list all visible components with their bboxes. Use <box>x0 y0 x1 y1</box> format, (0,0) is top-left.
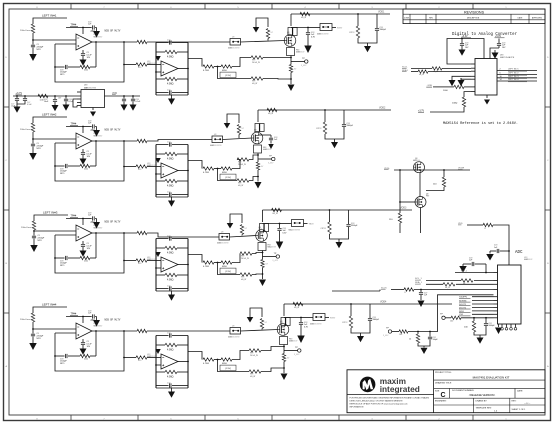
border zone tick bottom 6 <box>405 415 407 421</box>
capacitor C40 DAC decoupling <box>461 39 463 44</box>
border row tick right 3 <box>545 312 551 314</box>
svg-text:##: ## <box>261 166 264 168</box>
svg-text:20 kΩ_W: 20 kΩ_W <box>238 164 246 166</box>
supply arrow U2B <box>155 158 161 163</box>
wire DAC pin to ground B <box>461 78 471 79</box>
resistor R213 to ground <box>257 159 259 162</box>
capacitor C41 DAC ref <box>497 43 501 45</box>
svg-text:TP: TP <box>269 156 272 158</box>
resistor R18 upper output <box>251 56 263 59</box>
test point TP42 <box>283 347 285 351</box>
svg-text:20 kΩ_W: 20 kΩ_W <box>241 258 249 260</box>
border zone tick bottom 5 <box>338 415 340 421</box>
svg-text:1.00: 1.00 <box>84 359 89 361</box>
wire network to upper output <box>232 58 251 67</box>
svg-text:14: 14 <box>500 79 502 81</box>
svg-text:TP: TP <box>274 253 277 255</box>
svg-text:VDD: VDD <box>112 92 117 95</box>
ADC U7 box <box>498 265 522 324</box>
capacitor C25 second stage top <box>156 144 169 146</box>
junction loop at output line <box>123 41 125 43</box>
capacitor C34 feedback <box>68 257 80 259</box>
ground below jumper JU1 <box>253 27 260 33</box>
resistor R32 feedback <box>90 257 96 259</box>
wire DAC bottom-left pin to resistor R43 <box>464 92 471 97</box>
wire upper second-stage output to FET source node channel 1 <box>263 57 291 59</box>
data bus wire D1 to ADC <box>472 300 494 302</box>
resistor R112 on rail <box>300 12 310 15</box>
wire feedback vertical from output <box>95 141 97 166</box>
wire R23 to U2B inverting input <box>147 166 161 168</box>
wire input label to series resistor R11 <box>33 18 67 24</box>
svg-text:MAX####: MAX#### <box>94 134 104 137</box>
svg-text:##: ## <box>294 69 297 71</box>
svg-text:REPRODUCE OF ANY PORTION OF ww: REPRODUCE OF ANY PORTION OF www.maximint… <box>350 403 408 406</box>
junction rail at R114 <box>357 13 359 15</box>
capacitor C16 second stage bottom <box>156 92 169 94</box>
wire R11 to op-amp U1A non-inv input <box>33 33 76 40</box>
second stage left rail channel 3 <box>155 239 157 292</box>
ground at output node channel 1 <box>290 79 292 84</box>
svg-text:10: 10 <box>500 76 502 78</box>
junction second stage feed <box>123 260 125 262</box>
ground R56 C53 <box>479 335 481 338</box>
svg-text:##: ## <box>266 264 269 266</box>
resistor R24 second stage <box>156 153 165 155</box>
wire to second stage input resistor <box>124 166 136 168</box>
op-amp U4A first stage <box>76 323 92 339</box>
title block rev cell divider <box>509 398 511 413</box>
svg-text:LEFT IN#4: LEFT IN#4 <box>508 79 519 81</box>
capacitor C38 termination <box>348 210 350 224</box>
title block size cell divider <box>449 388 451 398</box>
resistor R31 input series <box>32 221 35 230</box>
wire network lower branch <box>218 67 252 79</box>
capacitor C43 below U4A <box>82 339 84 342</box>
wire network to upper output <box>232 160 240 169</box>
svg-text:1uF: 1uF <box>424 295 428 297</box>
svg-text:#_###: #_### <box>301 65 307 67</box>
svg-text:kΩ_W: kΩ_W <box>445 287 450 289</box>
svg-text:MAX####: MAX#### <box>94 324 104 327</box>
wire Q4 drain node to output transformer T4b <box>284 317 301 319</box>
svg-text:TP: TP <box>302 58 305 60</box>
resistor R42 feedback <box>90 355 96 357</box>
ADC left pin stubs <box>494 272 498 274</box>
svg-text:LEFT IN#1: LEFT IN#1 <box>508 68 519 70</box>
transistor Q1 output FET <box>284 35 296 47</box>
capacitor C23 below U2A <box>82 149 84 152</box>
svg-text:REV:: REV: <box>512 400 517 402</box>
ground below C33 <box>82 247 84 251</box>
title block frame <box>347 370 545 413</box>
svg-text:3300pF: 3300pF <box>373 319 380 321</box>
junction Q5 source <box>419 169 421 171</box>
resistor R46 output network <box>203 358 214 361</box>
svg-text:4.75Ω: 4.75Ω <box>203 70 209 72</box>
ground below second stage channel 4 <box>171 388 173 392</box>
svg-text:A: A <box>5 365 7 368</box>
wire network lower branch <box>218 360 250 372</box>
resistor R312 on rail <box>272 208 282 211</box>
resistor R42 1000 <box>454 85 464 88</box>
transformer T4 coupling <box>230 328 241 335</box>
op-amp U2B second stage <box>161 163 178 178</box>
svg-text:6810: 6810 <box>222 172 228 174</box>
border zone tick bottom 1 <box>70 415 72 421</box>
capacitor C47 at Q4 drain node <box>300 318 302 323</box>
svg-text:SDA1: SDA1 <box>402 69 408 72</box>
resistor R59 vertical <box>417 332 419 335</box>
junction loop at output line <box>123 232 125 234</box>
resistor R45 second stage lower <box>156 371 165 373</box>
junction rail at R314 <box>329 209 331 211</box>
wire feedback to inverting input of U3A <box>55 234 76 236</box>
svg-text:U#: U# <box>221 231 224 233</box>
svg-text:100pF: 100pF <box>433 339 439 341</box>
capacitor C53 <box>485 318 487 323</box>
svg-text:1uF: 1uF <box>469 260 473 262</box>
resistor R412 on rail <box>293 302 303 305</box>
svg-text:LEFT IN#3: LEFT IN#3 <box>43 211 58 215</box>
wire divider commons <box>418 340 430 347</box>
resistor R214 termination <box>324 110 326 122</box>
svg-text:C: C <box>440 392 445 399</box>
DAC U6 MAX5154 box <box>475 59 497 96</box>
second stage bottom rail channel 1 <box>156 94 188 96</box>
svg-text:kΩ_W: kΩ_W <box>419 74 424 76</box>
resistor R16 output network <box>203 65 214 68</box>
svg-text:MAX####: MAX#### <box>147 258 156 261</box>
wire R41 to op-amp U4A non-inv input <box>33 322 76 329</box>
svg-text:3300pF: 3300pF <box>347 125 354 127</box>
svg-text:REF_1: REF_1 <box>461 271 467 273</box>
resistor R25 second stage lower <box>156 180 165 182</box>
svg-text:U#: U# <box>214 134 217 136</box>
svg-text:1000pF: 1000pF <box>489 325 496 327</box>
capacitor C12 supply decoupling <box>92 25 94 29</box>
wire T4b to TX label <box>325 317 329 319</box>
wire R43 to U4B inverting input <box>147 357 161 359</box>
revisions table header row line <box>403 13 545 15</box>
svg-text:LEFT IN#1: LEFT IN#1 <box>42 14 57 18</box>
svg-text:NPO: NPO <box>60 265 65 267</box>
svg-text:#_###: #_### <box>294 354 300 356</box>
transistor Q4 output FET <box>277 324 289 336</box>
wire U3B non-inverting input from left rail <box>156 267 161 269</box>
supply arrow at U3A V+ <box>96 219 98 223</box>
wire U1B non-inverting input from left rail <box>156 71 161 73</box>
resistor R413 to ground <box>283 351 285 354</box>
resistor R37 output network <box>221 261 232 264</box>
ground below jumper JU3 <box>227 223 234 229</box>
junction U2A output feedback tap <box>95 140 97 142</box>
second stage bottom rail channel 4 <box>156 387 188 389</box>
svg-text:4.99Ω: 4.99Ω <box>167 56 174 59</box>
ground termination channel 1 <box>367 43 369 46</box>
maxim logo M monogram <box>363 379 374 390</box>
wire rail to ferrite bead FB2 <box>257 110 259 122</box>
svg-text:DRAWN BY:: DRAWN BY: <box>476 399 488 402</box>
resistor R40 on SCL1 <box>432 67 442 70</box>
wire feedback vertical from output <box>95 233 97 258</box>
capacitor C48 termination <box>369 304 371 318</box>
title block logo cell divider <box>433 370 435 413</box>
svg-text:C/P##: C/P## <box>321 228 327 230</box>
capacitor C21 input shunt <box>32 139 34 144</box>
resistor R30 rail series 1.00 <box>38 94 48 97</box>
resistor R48 upper output <box>249 349 261 352</box>
capacitor C32 10uF <box>54 96 56 99</box>
svg-text:kΩ_W: kΩ_W <box>250 376 255 378</box>
svg-text:1000: 1000 <box>443 90 448 92</box>
svg-text:C/P##: C/P## <box>349 32 355 34</box>
wire ADC first bus pin L-run <box>408 295 494 332</box>
junction output network <box>217 66 219 68</box>
svg-text:MAX####: MAX#### <box>94 226 104 229</box>
wire outer feedback loop channel 2 <box>55 141 124 181</box>
svg-text:TP: TP <box>386 328 389 330</box>
revisions table column line x410 <box>409 14 411 23</box>
junction loop at output line <box>123 140 125 142</box>
svg-text:R##: R## <box>138 360 143 362</box>
junction U3A output feedback tap <box>95 232 97 234</box>
ground below second stage channel 2 <box>171 197 173 201</box>
wire lower second-stage output to ground node channel 3 <box>252 273 263 276</box>
wire network lower branch <box>218 169 238 181</box>
svg-text:1uF: 1uF <box>494 247 498 249</box>
ground C32 <box>54 102 56 105</box>
op-amp U3B second stage <box>161 257 178 272</box>
border zone tick top 6 <box>405 4 407 10</box>
wire Q4 source to output node <box>283 345 285 347</box>
junction divider C54 <box>429 331 431 333</box>
wire lower second-stage output to ground node channel 4 <box>261 368 284 372</box>
revisions table column line x436 <box>435 14 437 23</box>
ground power input caps <box>16 104 18 107</box>
wire feedback vertical from output <box>95 331 97 356</box>
resistor R23 second stage input <box>136 165 147 168</box>
svg-text:4.75Ω: 4.75Ω <box>203 172 209 174</box>
wire cap commons to ground <box>17 101 25 104</box>
svg-text:NPO: NPO <box>60 363 65 365</box>
ferrite bead FB3b below Q3 <box>258 243 266 251</box>
svg-text:##: ## <box>265 322 268 324</box>
svg-text:##: ## <box>484 228 487 230</box>
supply arrow U1B <box>155 56 161 61</box>
capacitor C14 feedback <box>68 66 80 68</box>
svg-text:LEFT IN#3: LEFT IN#3 <box>508 76 519 78</box>
wire SDA1 to DAC <box>411 71 418 73</box>
wire Q1 source to output node <box>290 56 292 58</box>
supply arrow below C37 <box>279 231 281 242</box>
ground termination channel 2 <box>334 139 336 142</box>
svg-text:kΩ_W: kΩ_W <box>238 185 243 187</box>
resistor R54 SCLK <box>404 288 414 291</box>
svg-text:16V: 16V <box>87 156 91 158</box>
svg-text:MAX#######: MAX####### <box>210 144 222 147</box>
capacitor C17 at Q1 drain node <box>307 28 309 33</box>
second stage right rail channel 4 <box>187 336 189 389</box>
resistor R314 termination <box>329 210 331 222</box>
resistor R27 output network <box>221 167 232 170</box>
junction output network <box>217 262 219 264</box>
ferrite bead FB2a <box>255 124 259 132</box>
wire R51 to Q6 drain <box>426 187 444 191</box>
wire inverting input rail of U4A <box>54 333 56 356</box>
resistor R41 on SDA1 <box>418 70 428 73</box>
capacitor C54 <box>429 332 431 337</box>
junction rail after R30 <box>54 95 56 97</box>
svg-text:DATE:: DATE: <box>517 389 523 392</box>
svg-text:TP: TP <box>295 347 298 349</box>
svg-text:#_###: #_### <box>383 335 389 337</box>
resistor R39 lower output <box>240 273 252 276</box>
wire termination bottom channel 1 <box>358 31 377 43</box>
junction node input of U4A <box>32 328 34 330</box>
capacitor C52 on SCLK <box>420 290 422 293</box>
supply arrow at U4A V+ <box>96 317 98 321</box>
svg-text:NCB OF MLTV: NCB OF MLTV <box>105 129 121 132</box>
ground C34 <box>123 102 125 105</box>
svg-text:FOR PRICING DELIVERY AND ORDER: FOR PRICING DELIVERY AND ORDERING INFORM… <box>350 397 430 400</box>
svg-text:4.99Ω: 4.99Ω <box>167 158 174 161</box>
svg-text:kΩ_W: kΩ_W <box>294 307 299 309</box>
wire network to upper output <box>232 351 249 360</box>
wire feedback to inverting input of U2A <box>55 142 76 144</box>
svg-text:1.00: 1.00 <box>84 169 89 171</box>
svg-text:C/P##: C/P## <box>342 322 348 324</box>
svg-text:MAX#######: MAX####### <box>217 241 229 244</box>
capacitor C22 supply decoupling <box>92 124 94 128</box>
svg-text:16V: 16V <box>87 57 91 59</box>
svg-text:REVISIONS: REVISIONS <box>464 10 485 14</box>
wire Q3 drain node to output transformer T3b <box>263 223 280 225</box>
DAC output pin wire OUTB <box>497 74 537 76</box>
capacitor C35 second stage top <box>156 238 169 240</box>
wire R31 to op-amp U3A non-inv input <box>34 230 76 231</box>
wire +5.0V to DAC REF pin <box>498 39 500 44</box>
svg-text:100Ω: 100Ω <box>452 103 458 105</box>
border zone tick bottom 4 <box>271 415 273 421</box>
ferrite bead FB2b below Q2 <box>254 145 262 153</box>
border zone tick bottom 2 <box>137 415 139 421</box>
wire U2B output jog <box>188 161 202 169</box>
resistor R17 output network <box>221 65 232 68</box>
svg-text:kΩ_W: kΩ_W <box>301 17 306 19</box>
svg-text:MAX####: MAX#### <box>289 340 298 343</box>
wire DAC FB pin <box>444 86 454 88</box>
title block engineer cell divider <box>473 398 475 413</box>
ground at output node channel 2 <box>257 177 259 182</box>
svg-text:6.3V: 6.3V <box>311 36 316 38</box>
svg-text:6810: 6810 <box>222 70 228 72</box>
svg-text:FET: FET <box>426 196 430 198</box>
svg-text:MAX####: MAX#### <box>147 164 156 167</box>
svg-text:(1.5V): (1.5V) <box>225 75 231 77</box>
svg-text:110: 110 <box>433 184 437 186</box>
border zone tick top 7 <box>472 4 474 10</box>
svg-text:4.99Ω: 4.99Ω <box>167 279 174 282</box>
resistor R34 second stage <box>156 247 165 249</box>
svg-text:4.99Ω: 4.99Ω <box>167 83 174 86</box>
wire TP10 to resistor R58 <box>392 331 399 333</box>
resistor R50 110 lower <box>398 213 401 223</box>
DAC output pin wire OUTC <box>497 77 537 79</box>
supply arrow U3B <box>155 252 161 257</box>
svg-text:MAX####: MAX#### <box>147 355 156 358</box>
ground below C21 <box>32 147 34 154</box>
wire lower second-stage output to ground node channel 1 <box>263 78 291 81</box>
svg-text:NPO: NPO <box>60 74 65 76</box>
wire outer feedback loop channel 1 <box>55 42 124 82</box>
wire upper second-stage output to FET source node channel 4 <box>261 347 284 351</box>
second stage right rail channel 3 <box>187 239 189 292</box>
wire U5 output VDD <box>105 95 141 97</box>
resistor R51 110 <box>443 170 445 177</box>
svg-text:U##: U## <box>84 85 89 87</box>
svg-text:NPO: NPO <box>37 148 42 150</box>
svg-text:LEFT IN#4: LEFT IN#4 <box>42 303 57 307</box>
wire TP9 to ADC pin <box>445 317 451 319</box>
wire U1B output jog <box>188 59 202 67</box>
svg-text:SDA_1: SDA_1 <box>415 281 423 284</box>
svg-text:NPO: NPO <box>38 240 43 242</box>
ferrite bead FB1a <box>288 28 292 36</box>
wire R21 to op-amp U2A non-inv input <box>33 132 76 139</box>
ferrite bead FB4a <box>281 318 285 326</box>
capacitor C37 at Q3 drain node <box>279 224 281 229</box>
svg-text:MAX####: MAX#### <box>147 62 156 65</box>
resistor R310 gate line <box>137 231 147 234</box>
test point TP10 <box>388 330 391 333</box>
revisions table subheader row line <box>403 19 545 21</box>
border zone tick top 3 <box>204 4 206 10</box>
capacitor C45 second stage top <box>156 335 169 337</box>
resistor R15 second stage lower <box>156 78 165 80</box>
resistor R311 below jumper <box>240 225 243 235</box>
svg-text:NPO: NPO <box>37 338 42 340</box>
transistor Q5 upper switch FET <box>414 162 425 173</box>
wire U3A output <box>92 232 137 234</box>
svg-text:1k: 1k <box>409 339 411 341</box>
second stage left rail channel 1 <box>155 43 157 96</box>
wire outer feedback loop channel 3 <box>55 233 124 273</box>
ground divider <box>423 346 425 348</box>
junction node input of U1A <box>32 39 34 41</box>
ground below jumper JU2 <box>224 123 231 129</box>
ground DAC pin B <box>460 78 462 80</box>
capacitor C42 supply decoupling <box>92 314 94 318</box>
wire switch rail <box>394 169 470 171</box>
wire inverting input rail of U1A <box>54 44 56 67</box>
wire T3 to Q3 gate <box>230 236 257 238</box>
capacitor C18 termination <box>376 14 378 28</box>
resistor R49 lower output <box>249 370 261 373</box>
svg-text:1uF: 1uF <box>274 139 278 141</box>
ground U5 <box>92 108 94 111</box>
title block row line 3 <box>434 397 545 399</box>
ground DAC pin A <box>451 78 453 80</box>
wire input label to series resistor R21 <box>33 117 67 123</box>
junction loop at output line <box>123 330 125 332</box>
svg-text:3300pF: 3300pF <box>351 225 358 227</box>
maxim logo disc <box>360 377 376 393</box>
resistor R55 at TP9 <box>451 316 461 319</box>
test point TP22 <box>257 155 259 159</box>
svg-text:16V: 16V <box>465 47 469 49</box>
svg-text:C: C <box>547 160 549 162</box>
